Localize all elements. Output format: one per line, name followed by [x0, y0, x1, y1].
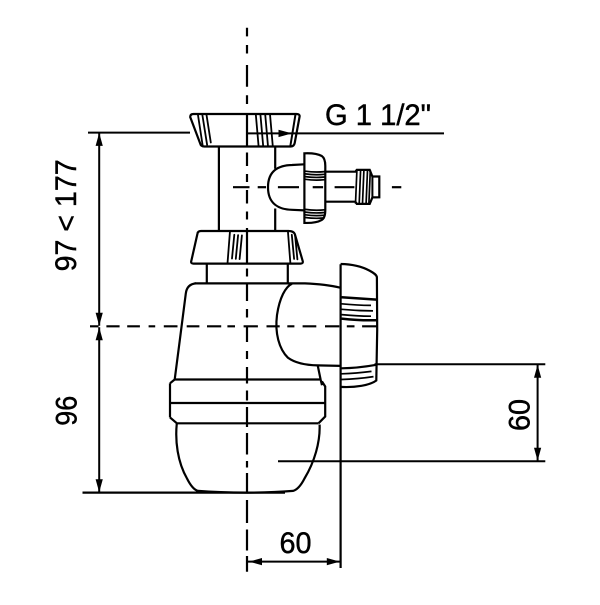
dimension extension line top: [88, 132, 190, 134]
svg-text:60: 60: [280, 527, 312, 560]
top nut knurl lines left: [198, 115, 211, 146]
centerline horizontal (hose branch axis): [233, 186, 401, 188]
outlet dome housing: [276, 284, 340, 366]
hose branch nut: [304, 153, 325, 223]
lower union nut: [191, 231, 303, 264]
leader line G 1 1/2: [248, 132, 444, 134]
outlet nut knurl lower band: [342, 365, 376, 380]
centerline horizontal (water level / outlet axis): [90, 325, 377, 327]
hose branch nut knurl lower band: [305, 209, 324, 218]
trap body top edge: [195, 283, 341, 287]
lower nut knurl lines left group: [228, 231, 242, 263]
neck below lower nut: [206, 264, 208, 284]
hose barb tail: [325, 170, 379, 204]
cup ring inner line: [170, 402, 325, 404]
svg-text:96: 96: [50, 396, 83, 426]
hose branch nut knurl upper band: [305, 171, 324, 180]
cup ring right edge: [319, 381, 326, 423]
right dim extension bottom: [278, 460, 545, 462]
centerline vertical (main axis): [246, 28, 248, 572]
dimension line 60 bottom: [248, 561, 341, 563]
hose branch dome housing: [268, 164, 304, 210]
bottom cup: [176, 423, 319, 492]
outlet nut (right vertical): [340, 264, 342, 568]
outlet nut knurl upper band: [342, 297, 377, 320]
svg-text:60: 60: [504, 399, 537, 431]
dimension line 97&lt;177: [98, 133, 100, 326]
right dim extension top: [375, 363, 546, 365]
trap body left profile: [175, 283, 196, 379]
lower nut knurl lines right group: [288, 231, 298, 263]
dimension line 60 right: [537, 365, 539, 461]
outlet down tube left edge: [318, 365, 322, 385]
leader arrowhead: [279, 130, 293, 137]
dimension line 96: [98, 327, 100, 492]
top nut knurl lines centre-right: [256, 114, 273, 146]
top union nut G 1 1/2: [190, 114, 299, 147]
top nut inner right edge: [290, 114, 295, 146]
svg-text:G 1 1/2": G 1 1/2": [325, 99, 431, 132]
hose barb rib lines: [356, 170, 373, 204]
inlet pipe: [218, 147, 220, 231]
ground baseline: [83, 492, 286, 494]
svg-text:97 < 177: 97 < 177: [50, 159, 83, 271]
cup ring band: [170, 380, 320, 384]
